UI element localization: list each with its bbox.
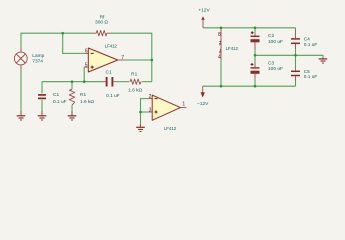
svg-text:300 Ω: 300 Ω	[95, 20, 108, 26]
svg-text:C4: C4	[304, 36, 310, 42]
svg-text:8: 8	[218, 32, 221, 38]
svg-text:1: 1	[182, 101, 185, 107]
svg-text:6: 6	[85, 49, 88, 55]
svg-text:0.1 uF: 0.1 uF	[53, 99, 67, 105]
svg-text:V−: V−	[219, 48, 223, 54]
svg-text:C3: C3	[268, 61, 274, 67]
svg-text:7: 7	[121, 55, 124, 61]
svg-text:−12V: −12V	[197, 101, 209, 107]
svg-text:C1: C1	[53, 92, 59, 98]
svg-text:3: 3	[149, 107, 152, 113]
svg-text:4: 4	[218, 54, 221, 60]
svg-text:Lamp: Lamp	[32, 53, 44, 59]
svg-text:1.6 kΩ: 1.6 kΩ	[128, 87, 142, 93]
svg-text:+12V: +12V	[198, 7, 210, 13]
svg-text:R1: R1	[80, 92, 86, 98]
svg-text:100 uF: 100 uF	[268, 39, 283, 45]
svg-text:R1: R1	[131, 71, 137, 77]
svg-text:LF412: LF412	[105, 43, 118, 48]
svg-text:0.1 uF: 0.1 uF	[304, 42, 318, 48]
svg-text:5: 5	[85, 62, 88, 68]
svg-text:0.1 uF: 0.1 uF	[106, 93, 120, 99]
svg-text:LF412: LF412	[164, 126, 177, 131]
svg-text:2: 2	[149, 94, 152, 100]
svg-text:0.1 uF: 0.1 uF	[304, 74, 318, 80]
svg-text:7374: 7374	[32, 59, 43, 65]
svg-text:V+: V+	[219, 40, 223, 46]
svg-text:1.6 kΩ: 1.6 kΩ	[80, 99, 94, 105]
svg-text:C2: C2	[268, 33, 274, 39]
svg-text:Rf: Rf	[100, 14, 105, 20]
svg-text:C5: C5	[304, 69, 310, 75]
svg-text:C1: C1	[106, 69, 112, 75]
svg-text:LF412: LF412	[226, 46, 239, 51]
svg-text:100 uF: 100 uF	[268, 66, 283, 72]
